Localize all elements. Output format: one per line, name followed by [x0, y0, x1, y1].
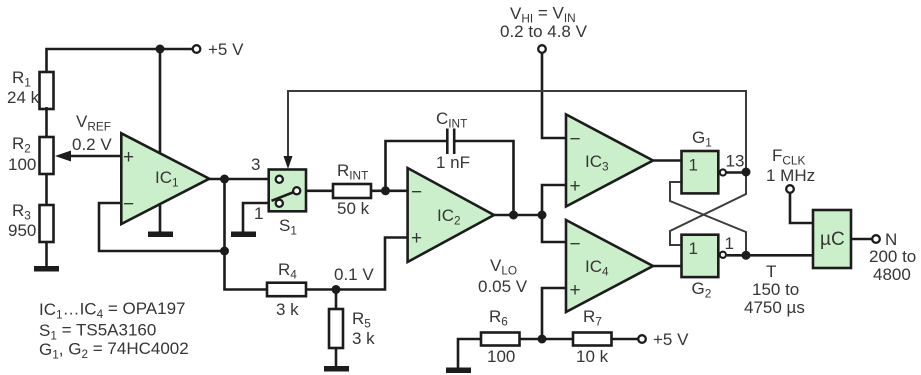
- resistor R3: [40, 205, 54, 242]
- op-amp IC4: [566, 220, 653, 312]
- NOR gate G1: [682, 151, 719, 193]
- svg-text:IC1…IC4 = OPA197: IC1…IC4 = OPA197: [39, 299, 186, 322]
- svg-text:950: 950: [8, 221, 36, 240]
- op-amp IC3: [566, 114, 653, 206]
- wire G1 bubble to node: [727, 171, 747, 174]
- terminal N: [872, 235, 880, 243]
- resistor R5: [329, 309, 343, 348]
- svg-text:−: −: [570, 129, 581, 150]
- svg-text:+: +: [411, 228, 422, 249]
- svg-text:0.1 V: 0.1 V: [334, 265, 374, 284]
- svg-text:1: 1: [689, 239, 698, 258]
- svg-text:−: −: [123, 194, 134, 215]
- capacitor CINT: [446, 129, 449, 155]
- wire +5V rail top-left: [47, 49, 193, 72]
- wire CINT feedback loop: [386, 141, 447, 191]
- wire G2 output to uC: [746, 254, 813, 257]
- node integrator input: [381, 186, 390, 195]
- G1 output bubble: [720, 169, 726, 175]
- microcontroller uC: [813, 210, 851, 268]
- wire VHI to IC3 inverting input: [542, 54, 566, 139]
- svg-text:0.05 V: 0.05 V: [478, 277, 528, 296]
- svg-text:+5 V: +5 V: [208, 40, 244, 59]
- wire S1 pin1 to ground: [243, 203, 269, 232]
- ground below IC1: [148, 232, 173, 238]
- ground at R6: [446, 368, 471, 374]
- wire VLO to IC4 + input: [542, 288, 566, 339]
- svg-text:3 k: 3 k: [352, 329, 375, 348]
- node R4/R5 junction: [332, 285, 341, 294]
- wire IC1 output down to R4: [225, 179, 268, 290]
- svg-text:R4: R4: [278, 260, 297, 282]
- op-amp IC1: [121, 133, 209, 224]
- svg-text:3: 3: [251, 155, 260, 174]
- svg-text:13: 13: [726, 152, 745, 171]
- wire R4 junction to IC2 + input: [306, 238, 408, 290]
- svg-text:CINT: CINT: [436, 109, 467, 131]
- resistor R7: [573, 333, 612, 346]
- node +5V junction: [156, 45, 165, 54]
- svg-text:10 k: 10 k: [576, 347, 609, 366]
- svg-text:100: 100: [487, 347, 515, 366]
- svg-text:µC: µC: [820, 229, 845, 250]
- wire cross-couple G2 out to G1 input: [670, 182, 746, 252]
- G2 output bubble: [720, 252, 726, 258]
- resistor R6: [481, 333, 520, 346]
- wire RINT to IC2 inverting input: [371, 190, 408, 193]
- terminal +5V right: [638, 335, 646, 343]
- svg-text:RINT: RINT: [337, 161, 368, 183]
- svg-text:R3: R3: [12, 201, 31, 223]
- wire R5 bottom stem: [335, 348, 338, 367]
- svg-text:1 nF: 1 nF: [436, 153, 470, 172]
- wire R7 to +5V terminal: [612, 338, 638, 341]
- svg-text:R1: R1: [12, 68, 31, 90]
- wire G2 bubble to node: [727, 254, 746, 257]
- resistor R4: [267, 283, 306, 297]
- wire R5 top stem: [335, 290, 338, 310]
- NOR gate G2: [682, 235, 719, 277]
- wire cross-couple G1 out to G2 input: [670, 175, 746, 245]
- svg-text:G1, G2 = 74HC4002: G1, G2 = 74HC4002: [39, 339, 189, 362]
- svg-text:VREF: VREF: [76, 112, 111, 134]
- svg-text:1: 1: [254, 204, 263, 223]
- svg-text:−: −: [411, 182, 422, 203]
- resistor R1: [40, 72, 54, 109]
- wire IC1 ground stem: [159, 200, 162, 232]
- node G1 output: [742, 168, 751, 177]
- node VLO junction: [538, 335, 547, 344]
- svg-text:4750 µs: 4750 µs: [744, 298, 805, 317]
- wire IC3 output to G1: [653, 159, 682, 162]
- resistor RINT: [333, 184, 371, 198]
- svg-text:S1: S1: [279, 216, 297, 238]
- svg-text:R7: R7: [583, 307, 602, 329]
- wire R1-R2: [45, 107, 48, 137]
- terminal +5V: [193, 45, 201, 53]
- wire R6 left to ground: [458, 339, 481, 368]
- switch S1 contacts: [276, 176, 283, 183]
- node IC1 output: [220, 175, 229, 184]
- svg-text:3 k: 3 k: [276, 300, 299, 319]
- wire IC1 inverting input feedback: [99, 203, 225, 251]
- switch S1 box: [269, 170, 306, 212]
- node G2 output: [742, 251, 751, 260]
- wire FCLK to uC: [790, 194, 813, 224]
- svg-text:−: −: [570, 234, 581, 255]
- svg-text:+5 V: +5 V: [653, 330, 689, 349]
- svg-text:200 to: 200 to: [869, 247, 916, 266]
- svg-text:0.2 to 4.8 V: 0.2 to 4.8 V: [500, 22, 588, 41]
- svg-text:R6: R6: [489, 307, 508, 329]
- svg-text:100: 100: [8, 155, 36, 174]
- svg-text:G1: G1: [692, 128, 712, 150]
- wire uC output: [851, 238, 872, 241]
- svg-text:0.2 V: 0.2 V: [72, 135, 112, 154]
- svg-text:R5: R5: [352, 309, 371, 331]
- wire IC1 positive supply drop: [159, 49, 162, 153]
- svg-text:24 k: 24 k: [7, 88, 40, 107]
- svg-text:VLO: VLO: [490, 256, 517, 278]
- node CINT return: [509, 211, 518, 220]
- svg-text:4800: 4800: [873, 265, 911, 284]
- svg-text:FCLK: FCLK: [772, 146, 805, 168]
- svg-text:1: 1: [689, 156, 698, 175]
- svg-text:1: 1: [725, 234, 734, 253]
- svg-text:G2: G2: [692, 279, 712, 301]
- wire S1 common to RINT: [306, 190, 333, 193]
- ground below R3: [34, 266, 59, 272]
- wire IC1 output to S1 pin3: [209, 178, 269, 181]
- wire IC4 output to G2: [653, 265, 682, 268]
- terminal VHI: [538, 45, 546, 53]
- svg-text:+: +: [570, 176, 581, 197]
- wire VREF tap arrow to IC1 + input: [68, 155, 121, 158]
- arrowhead S1 control: [284, 156, 293, 169]
- wire IC2 output: [494, 214, 542, 217]
- op-amp IC2: [408, 168, 494, 262]
- wire R2-R3: [45, 174, 48, 205]
- wire R3 to ground: [45, 242, 48, 267]
- svg-text:+: +: [123, 147, 134, 168]
- svg-text:50 k: 50 k: [337, 199, 370, 218]
- node feedback junction: [220, 247, 229, 256]
- wire feedback G1 output to S1 control: [288, 91, 746, 172]
- svg-text:150 to: 150 to: [752, 280, 799, 299]
- switch S1 lever: [272, 191, 297, 201]
- node comparator branch: [538, 211, 547, 220]
- wire to IC3 + and IC4 - inputs: [542, 185, 566, 242]
- resistor R2 (pot): [40, 137, 54, 174]
- terminal FCLK: [786, 185, 794, 193]
- svg-text:1 MHz: 1 MHz: [766, 166, 815, 185]
- ground at S1 pin1: [231, 232, 256, 238]
- wire R6 to R7: [520, 338, 574, 341]
- svg-text:T: T: [766, 262, 776, 281]
- svg-text:R2: R2: [12, 134, 31, 156]
- svg-text:+: +: [570, 280, 581, 301]
- ground below R5: [324, 366, 349, 372]
